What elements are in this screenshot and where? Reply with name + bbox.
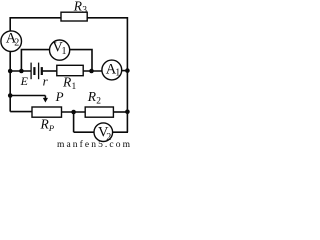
svg-text:P: P <box>48 123 54 133</box>
svg-text:P: P <box>55 89 64 104</box>
svg-text:E: E <box>20 74 29 88</box>
svg-text:1: 1 <box>62 46 67 57</box>
svg-text:manfen5.com: manfen5.com <box>57 139 132 149</box>
svg-text:3: 3 <box>82 6 87 16</box>
svg-text:1: 1 <box>72 82 77 92</box>
svg-text:R: R <box>73 0 83 14</box>
svg-text:r: r <box>43 74 49 89</box>
svg-text:1: 1 <box>115 68 120 79</box>
svg-text:2: 2 <box>14 37 19 48</box>
svg-text:R: R <box>62 75 72 90</box>
svg-text:2: 2 <box>96 96 101 106</box>
